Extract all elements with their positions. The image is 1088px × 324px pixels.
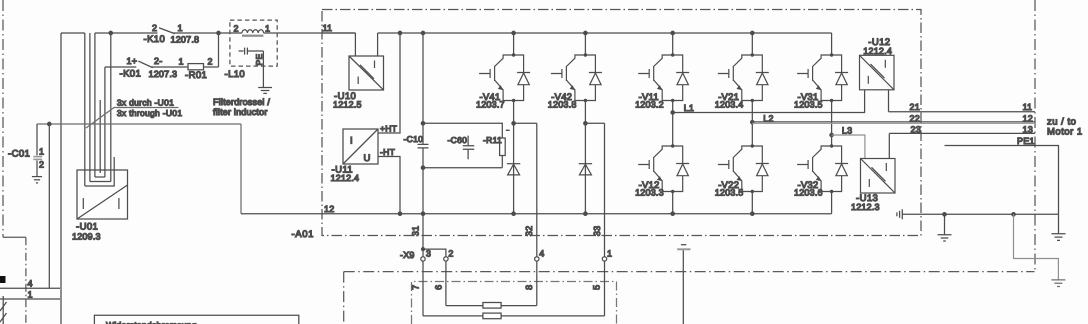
svg-text:3: 3 (426, 249, 431, 259)
node dot on top wire (109, 31, 112, 34)
junction dot V41 leg on rail 12 (512, 212, 515, 215)
wire V21 to V22 (751, 101, 753, 147)
transistor V31 leg riser (831, 33, 833, 55)
U10 tick bottom-left (357, 77, 359, 85)
wire bundle line C-left (94, 33, 96, 177)
svg-text:1212.4: 1212.4 (863, 46, 892, 56)
transistor V41 (479, 53, 530, 102)
node dot C01 junction (48, 122, 51, 125)
connector X9 wire 31 (422, 214, 424, 257)
wire L1 (673, 90, 865, 113)
current transducer U12 (860, 55, 895, 90)
snubber loop wire top C60/R11 (423, 123, 502, 138)
wire row 3-1 (423, 315, 605, 317)
junction dot V42 leg on rail 12 (584, 212, 587, 215)
transistor V42 leg riser (584, 33, 586, 55)
svg-text:31: 31 (411, 226, 421, 236)
svg-text:7: 7 (411, 285, 421, 290)
cabinet border bottom (dash-dot) (344, 271, 1035, 273)
svg-text:22: 22 (910, 113, 920, 123)
ground bus line (902, 213, 1058, 215)
wire earth drop down (682, 250, 684, 324)
current transducer U13 (861, 159, 896, 194)
ground symbol under C01 (32, 176, 42, 178)
wire X9 pin4 down (536, 261, 538, 306)
U10 tick top-right (374, 61, 376, 69)
ground symbol PE1 (1052, 214, 1066, 240)
DC minus rail 12 (241, 213, 832, 215)
capacitor to PE inside L10 (239, 50, 244, 52)
rectifier U01 box (77, 170, 128, 219)
wire X9 pin3 down (422, 261, 424, 316)
transistor V22 (718, 144, 769, 193)
svg-text:1207.8: 1207.8 (171, 35, 200, 45)
wire row 2-4 (446, 305, 537, 307)
junction dot V22 leg on rail 12 (751, 212, 754, 215)
wire L2 ghost line (752, 122, 1035, 124)
svg-text:Filterdrossel /: Filterdrossel / (213, 97, 270, 107)
svg-text:1: 1 (178, 23, 183, 33)
svg-text:11: 11 (1023, 102, 1033, 112)
junction dot U11 on rail 12 (398, 212, 401, 215)
connector X9 pin 2 (444, 257, 448, 261)
svg-text:Motor 1: Motor 1 (1047, 126, 1083, 137)
svg-text:1203.8: 1203.8 (548, 100, 577, 110)
svg-text:-R11: -R11 (483, 135, 502, 145)
wire: K01 branch (105, 66, 136, 68)
wire bundle line A-left (84, 33, 86, 186)
wire 4 (0, 287, 60, 289)
current transducer U10 stub left (354, 33, 356, 56)
ground symbol under L10 (258, 87, 272, 89)
wire to cabinet earth (gray) (1014, 214, 1059, 279)
svg-text:1203.7: 1203.7 (476, 100, 505, 110)
node dot U11 plus feed (398, 31, 401, 34)
wire bundle center line (99, 100, 101, 173)
chassis earth drop at A01 bottom (681, 244, 686, 246)
transistor V21 leg riser (751, 33, 753, 55)
svg-text:8: 8 (524, 285, 534, 290)
svg-text:3x through -U01: 3x through -U01 (117, 108, 182, 118)
current-transformer window U01 bracket B (90, 181, 111, 183)
svg-text:-K10: -K10 (144, 34, 166, 45)
svg-text:1: 1 (28, 290, 33, 300)
DC plus rail continuing (378, 32, 832, 34)
wire V41 leg down (513, 101, 515, 214)
snubber loop wire bottom (423, 167, 502, 169)
connector X9 pin 4 (535, 257, 539, 261)
page border jog (3, 236, 26, 238)
wire 21 to motor (889, 111, 1036, 113)
wire X9 jumper 3-2 (423, 249, 446, 257)
svg-text:2: 2 (39, 160, 44, 170)
svg-text:-K01: -K01 (120, 69, 142, 80)
wire L3 (832, 135, 865, 159)
capacitor C60 (463, 136, 475, 160)
svg-text:1203.6: 1203.6 (794, 188, 823, 198)
terminal block mark (black) (0, 276, 6, 283)
svg-text:12: 12 (1023, 113, 1033, 123)
svg-text:1: 1 (179, 57, 184, 67)
wire V12 leg down (672, 192, 674, 214)
junction dot C10 on rail 12 (421, 212, 424, 215)
capacitor C01 (36, 124, 38, 155)
left DC bus loop top (61, 32, 85, 34)
wire bundle line C-right (K01 feed) (104, 67, 106, 177)
resistor R11 (500, 138, 506, 156)
svg-text:2: 2 (234, 24, 239, 34)
wire U12 output stub (888, 90, 890, 112)
wire V42 tap to output 33 (585, 122, 604, 124)
cabinet border bottom-left (dash-dot) (25, 237, 27, 324)
enclosure frame X9 area (dash-dot) (412, 282, 617, 324)
transistor V32 (797, 144, 848, 193)
node dot X9 jumper (422, 248, 425, 251)
wire bundle line B-right (110, 33, 112, 182)
node dot L1 (671, 111, 674, 114)
svg-text:1203.5: 1203.5 (794, 100, 823, 110)
wire: L10 output to node 11 (277, 32, 355, 34)
filter inductor L10 dashed box (230, 20, 277, 66)
svg-text:PE: PE (254, 54, 264, 66)
contactor K10 contact (173, 32, 218, 34)
resistor between 6 and 8 (483, 303, 501, 309)
current transducer U10 box (349, 56, 384, 90)
transistor V21 (718, 53, 769, 102)
cabinet border bottom-left vertical (dash-dot) (343, 272, 345, 324)
chassis earth symbol A01 (pointing left) (897, 209, 902, 219)
wire: R01 riser to top wire (218, 33, 220, 67)
node dot C10 top (421, 31, 424, 34)
minus mark at R11 (506, 129, 510, 131)
node dot V42 tap (584, 122, 587, 125)
resistor between 7 and 5 (483, 313, 501, 319)
svg-text:-A01: -A01 (292, 229, 314, 240)
transistor V12 (638, 144, 689, 193)
node dot ground 2 (1012, 213, 1015, 216)
svg-text:+HT: +HT (380, 124, 397, 134)
diode under V41 (507, 164, 520, 175)
ground symbol cabinet (1051, 280, 1065, 287)
braking resistor box bottom (94, 315, 298, 324)
transistor V11 leg riser (672, 33, 674, 55)
current-transformer window U01 bracket C (95, 176, 105, 178)
svg-text:6: 6 (434, 285, 444, 290)
connector X9 pin 3 (421, 257, 425, 261)
wire V32 leg down (831, 192, 833, 214)
svg-text:-C10: -C10 (404, 134, 424, 144)
transistor V41 leg riser (513, 33, 515, 55)
svg-text:1203.3: 1203.3 (635, 188, 664, 198)
wire riser left (to wire 1) (60, 33, 62, 324)
svg-text:32: 32 (524, 226, 534, 236)
capacitor C10 (418, 144, 429, 148)
svg-text:2: 2 (208, 57, 213, 67)
svg-text:PE1: PE1 (1017, 136, 1035, 146)
hatched wall bottom-left (2, 296, 4, 324)
svg-text:3x durch -U01: 3x durch -U01 (117, 98, 174, 108)
wire C10 line upper (422, 33, 424, 144)
svg-text:21: 21 (910, 102, 920, 112)
svg-text:U: U (364, 153, 371, 164)
wire L2 (to motor 22) (752, 121, 1035, 123)
svg-text:13: 13 (1023, 124, 1033, 134)
svg-text:1: 1 (265, 24, 270, 34)
wire 23 to motor (889, 132, 1035, 134)
svg-text:1+: 1+ (127, 56, 138, 66)
svg-text:12: 12 (324, 204, 334, 214)
U01 tick right (118, 198, 120, 209)
wire output 32 (536, 123, 538, 256)
svg-text:2-: 2- (154, 56, 162, 66)
converter module A01 border (dash-dot) (322, 10, 921, 236)
ground symbol at 944 (938, 214, 952, 241)
wire V31 to V32 (831, 101, 833, 147)
svg-text:1: 1 (607, 249, 612, 259)
contactor K01 contact (139, 61, 153, 67)
wire output 33 (604, 123, 606, 256)
wire V22 leg down (751, 192, 753, 214)
wire -HT to DC minus rail (378, 157, 400, 214)
inductor L10 winding (241, 32, 243, 34)
svg-text:1: 1 (39, 147, 44, 157)
wire C10 line lower (422, 148, 424, 214)
junction dot V12 leg on rail 12 (671, 212, 674, 215)
svg-text:-R01: -R01 (185, 70, 207, 81)
svg-text:4: 4 (28, 279, 33, 289)
wire V11 to V12 (672, 101, 674, 147)
wire into L10 (219, 32, 241, 34)
current-transformer window U01 bracket A (85, 157, 114, 186)
svg-text:-X9: -X9 (400, 250, 415, 260)
wire bundle line B-left (89, 33, 91, 182)
node dot L3 (830, 133, 833, 136)
wire: top DC feed from left bus to K10 (95, 32, 158, 34)
wire X9 pin1 down (604, 261, 606, 316)
svg-text:33: 33 (592, 226, 602, 236)
svg-text:5: 5 (592, 285, 602, 290)
DC plus rail inside A01 (322, 32, 355, 34)
page border left (dash-dot) (2, 0, 4, 237)
svg-text:1212.3: 1212.3 (851, 202, 880, 212)
wire U13 output stub (888, 133, 890, 158)
svg-text:1203.4: 1203.4 (715, 100, 744, 110)
inductor core bar (242, 35, 263, 37)
svg-text:Widerstandsbremsung: Widerstandsbremsung (106, 320, 197, 324)
wire riser to wire 4 (48, 124, 50, 288)
wire V42 leg down (584, 101, 586, 214)
svg-text:-C01: -C01 (8, 149, 30, 160)
wire V41 tap to output 32 (514, 122, 537, 124)
svg-text:1212.4: 1212.4 (331, 173, 360, 183)
svg-text:I: I (350, 136, 353, 147)
svg-text:2: 2 (152, 23, 157, 33)
svg-text:4: 4 (539, 249, 544, 259)
node dot ground 1 (943, 213, 946, 216)
diode under V42 (579, 164, 592, 175)
voltage transducer U11 box (343, 129, 378, 164)
node dot snubber top (421, 122, 424, 125)
transistor V42 (551, 53, 602, 102)
wire X9 pin2 down (445, 261, 447, 306)
transistor V31 (797, 53, 848, 102)
svg-text:1203.5: 1203.5 (715, 188, 744, 198)
resistor R01 (188, 64, 204, 70)
U01 diagonal (77, 185, 128, 219)
svg-text:1203.2: 1203.2 (635, 100, 664, 110)
node dot L2 (751, 121, 754, 124)
svg-text:L3: L3 (842, 125, 852, 135)
svg-text:filter inductor: filter inductor (213, 107, 268, 117)
wire PE1 (945, 146, 1059, 215)
wire 1 (0, 298, 60, 300)
svg-text:1207.3: 1207.3 (149, 69, 178, 79)
svg-text:-HT: -HT (380, 147, 395, 157)
node dot V41 tap (512, 122, 515, 125)
svg-text:L1: L1 (684, 103, 694, 113)
wire L10 PE to earth (262, 51, 264, 88)
svg-text:1209.3: 1209.3 (72, 232, 101, 242)
svg-text:2: 2 (448, 249, 453, 259)
wire +HT riser (378, 33, 400, 133)
sheet border right (dash-dot) (1034, 0, 1036, 272)
svg-text:11: 11 (323, 23, 333, 33)
wire DC minus from C01 to A01 (12 rail riser) (37, 124, 241, 214)
node dot at L10 input (217, 31, 220, 34)
current transducer U10 stub right (377, 33, 379, 56)
connector X9 pin 1 (602, 257, 606, 261)
svg-text:-L10: -L10 (225, 69, 246, 80)
leader line 3x durch (86, 108, 179, 129)
svg-text:-C60: -C60 (448, 135, 468, 145)
U01 tick left (82, 198, 84, 209)
transistor V11 (638, 53, 689, 102)
svg-text:L2: L2 (763, 113, 773, 123)
node dot snubber bottom (421, 166, 424, 169)
svg-text:1212.5: 1212.5 (333, 100, 362, 110)
